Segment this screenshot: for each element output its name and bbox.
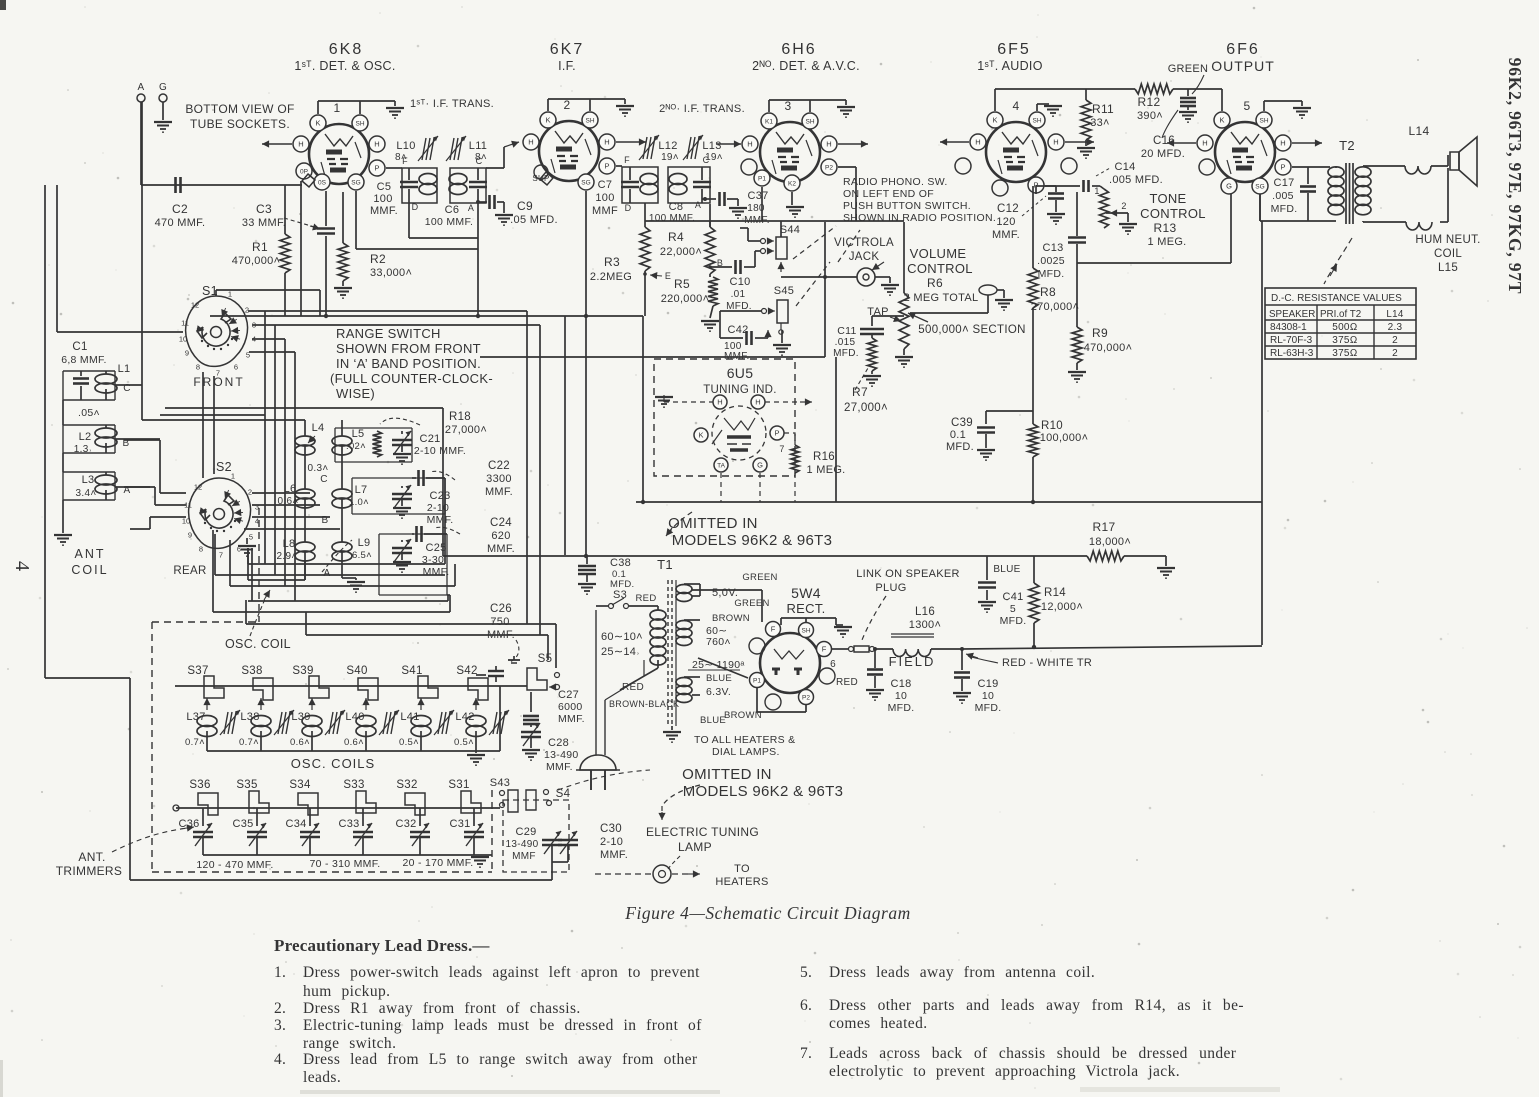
wire arrow up xyxy=(764,330,782,343)
switch S5 xyxy=(527,653,560,691)
capacitor C18 xyxy=(867,647,883,688)
svg-text:SH: SH xyxy=(805,118,814,125)
label volume control xyxy=(904,246,979,304)
svg-text:electrolytic to prevent app: electrolytic to prevent approaching Vict… xyxy=(829,1063,1180,1080)
svg-text:375Ω: 375Ω xyxy=(1332,348,1358,359)
svg-text:8: 8 xyxy=(199,545,203,554)
label 6 xyxy=(830,659,836,670)
wire heater arrows xyxy=(616,138,646,145)
switch S38 xyxy=(241,665,273,700)
label L12 19 xyxy=(658,140,679,163)
svg-text:LAMP: LAMP xyxy=(678,840,712,854)
box L5 xyxy=(335,428,412,462)
dashed arrow to table xyxy=(1324,238,1352,284)
svg-text:2-10 MMF.: 2-10 MMF. xyxy=(414,445,466,457)
wire xyxy=(57,185,183,332)
svg-text:S41: S41 xyxy=(401,665,422,677)
capacitor C37 xyxy=(702,192,738,206)
lead dress item 4 xyxy=(274,1051,698,1068)
label victrola jack xyxy=(834,237,894,263)
pin P xyxy=(1275,159,1291,175)
svg-text:2: 2 xyxy=(564,98,571,112)
svg-text:leads.: leads. xyxy=(303,1069,341,1086)
svg-text:R14: R14 xyxy=(1044,587,1066,599)
coil L12 xyxy=(640,174,658,195)
label R14 xyxy=(1041,587,1083,613)
svg-text:TONE: TONE xyxy=(1149,191,1186,206)
label R8 xyxy=(1031,285,1080,313)
ground xyxy=(786,207,804,217)
svg-text:20 MFD.: 20 MFD. xyxy=(1141,148,1185,160)
svg-text:F: F xyxy=(402,156,408,166)
svg-text:MMF.: MMF. xyxy=(558,713,585,725)
coil L41 xyxy=(399,698,454,751)
wire xyxy=(781,618,836,625)
svg-text:8: 8 xyxy=(196,363,200,372)
pin P2 xyxy=(799,690,814,705)
dashed pointer xyxy=(1162,75,1204,138)
svg-text:H: H xyxy=(1053,138,1058,147)
label 0.3 C xyxy=(308,463,329,485)
ground xyxy=(154,122,172,132)
lug xyxy=(302,174,315,187)
label tone control xyxy=(1140,191,1206,248)
svg-text:C24: C24 xyxy=(490,517,512,529)
svg-text:C42: C42 xyxy=(727,324,748,336)
label FIELD xyxy=(889,654,936,669)
svg-text:2.2MEG: 2.2MEG xyxy=(590,271,632,283)
pin P2 xyxy=(821,159,837,175)
lead dress item 5 xyxy=(800,964,1095,981)
label C10 xyxy=(726,276,752,312)
wire xyxy=(1363,221,1406,222)
svg-text:100: 100 xyxy=(595,192,614,204)
wire xyxy=(142,419,305,421)
coil L37 xyxy=(185,698,240,751)
coil L10 primary xyxy=(419,174,437,195)
wire D-bus xyxy=(409,203,478,238)
wire xyxy=(1440,168,1448,222)
svg-text:.05 MFD.: .05 MFD. xyxy=(510,214,558,226)
label red-white tr xyxy=(966,653,1092,669)
coil L8 xyxy=(277,538,315,562)
svg-text:range switch.: range switch. xyxy=(303,1035,396,1052)
svg-text:L14: L14 xyxy=(1409,124,1430,138)
svg-text:1.3˒: 1.3˒ xyxy=(74,444,92,455)
label GREEN t1b xyxy=(734,598,769,609)
node A xyxy=(468,200,480,213)
svg-text:C34: C34 xyxy=(285,818,306,830)
label 6F5 xyxy=(997,41,1031,58)
coil L1 xyxy=(95,363,131,400)
svg-text:0.6˄: 0.6˄ xyxy=(278,496,299,507)
resistor R12 xyxy=(1135,84,1173,94)
wire P1 tube3 xyxy=(761,187,763,221)
label C24 xyxy=(434,517,515,555)
capacitor C42 xyxy=(720,331,768,345)
label C21 xyxy=(414,433,466,457)
svg-text:ANT.: ANT. xyxy=(78,850,105,864)
pin K xyxy=(540,112,556,128)
lead dress item 6 xyxy=(800,997,1244,1014)
wire xyxy=(548,99,625,111)
svg-text:5.: 5. xyxy=(800,964,812,981)
pin P1 xyxy=(750,673,765,688)
svg-text:MFD.: MFD. xyxy=(946,441,974,453)
ant box L2 xyxy=(63,425,115,453)
svg-text:1 MEG.: 1 MEG. xyxy=(1147,236,1186,248)
svg-text:R17: R17 xyxy=(1093,520,1116,534)
svg-text:RED - WHITE TR: RED - WHITE TR xyxy=(1002,657,1092,669)
capacitor C41 xyxy=(978,556,996,600)
svg-text:7.: 7. xyxy=(800,1045,812,1062)
box L9 C25 xyxy=(379,534,447,595)
label R9 xyxy=(1084,326,1133,354)
wire xyxy=(698,658,748,678)
svg-text:K: K xyxy=(545,116,550,125)
svg-text:C33: C33 xyxy=(338,818,359,830)
svg-text:RED: RED xyxy=(836,677,858,688)
capacitor C19 xyxy=(954,647,970,691)
label C11 xyxy=(833,325,859,359)
svg-text:L41: L41 xyxy=(400,711,419,723)
svg-text:470,000˄: 470,000˄ xyxy=(1084,342,1133,354)
svg-text:MMF.: MMF. xyxy=(427,514,454,526)
label R10 xyxy=(1040,420,1089,444)
svg-text:19˄: 19˄ xyxy=(661,152,679,163)
svg-text:S33: S33 xyxy=(343,779,364,791)
label L13 19 xyxy=(702,140,723,163)
svg-text:L3: L3 xyxy=(82,474,95,486)
svg-text:C21: C21 xyxy=(419,433,440,445)
arrow up S45 xyxy=(779,323,783,334)
svg-text:5: 5 xyxy=(1010,603,1016,615)
pin H xyxy=(1048,134,1064,150)
label R4 xyxy=(660,230,702,258)
label 60-10 25-14 xyxy=(601,631,643,658)
label C18 xyxy=(888,678,915,714)
ground xyxy=(54,535,72,545)
svg-text:MMF.: MMF. xyxy=(485,486,513,498)
switch S45 xyxy=(762,300,789,323)
ground xyxy=(393,508,411,518)
svg-text:RADIO PHONO. SW.: RADIO PHONO. SW. xyxy=(843,176,948,188)
svg-text:27,000˄: 27,000˄ xyxy=(445,424,487,436)
svg-text:1: 1 xyxy=(334,101,341,115)
ground xyxy=(837,107,855,117)
svg-text:620: 620 xyxy=(491,530,510,542)
pin H xyxy=(742,136,758,152)
svg-text:R8: R8 xyxy=(1040,285,1056,299)
lead dress item 7 xyxy=(800,1045,1237,1062)
svg-text:D.-C. RESISTANCE VALUES: D.-C. RESISTANCE VALUES xyxy=(1271,293,1402,304)
svg-text:B: B xyxy=(322,515,329,526)
svg-text:6.3V.: 6.3V. xyxy=(706,686,731,698)
svg-text:SH: SH xyxy=(585,117,594,124)
coil L4 xyxy=(295,422,324,455)
label S45 xyxy=(774,285,794,297)
svg-text:2 MEG TOTAL: 2 MEG TOTAL xyxy=(904,292,979,304)
svg-text:OMITTED IN: OMITTED IN xyxy=(668,515,758,532)
ground xyxy=(393,562,411,572)
label C30 xyxy=(600,823,628,861)
pin H xyxy=(970,134,986,150)
label omitted in models (upper) xyxy=(668,515,832,549)
svg-text:20 - 170 MMF.: 20 - 170 MMF. xyxy=(402,857,473,869)
svg-text:S2: S2 xyxy=(216,460,232,474)
svg-text:LINK ON SPEAKER: LINK ON SPEAKER xyxy=(856,568,960,580)
label C3 xyxy=(242,202,286,229)
label L11 8 xyxy=(469,140,487,163)
wire xyxy=(318,101,395,114)
svg-text:MMF.: MMF. xyxy=(370,205,398,217)
svg-text:6000: 6000 xyxy=(558,701,583,713)
ground xyxy=(342,578,365,592)
label OUTPUT xyxy=(1211,58,1275,74)
svg-text:TA: TA xyxy=(717,462,725,469)
svg-text:MFD.: MFD. xyxy=(1000,615,1027,627)
svg-text:1.: 1. xyxy=(274,964,286,981)
svg-text:BLUE: BLUE xyxy=(993,564,1020,575)
ground xyxy=(655,397,673,407)
svg-text:ON LEFT END OF: ON LEFT END OF xyxy=(843,188,934,200)
svg-text:K: K xyxy=(992,116,997,125)
svg-text:25∼ 1190ᵃ: 25∼ 1190ᵃ xyxy=(692,659,745,671)
svg-text:C26: C26 xyxy=(490,603,512,615)
svg-text:0.6˄: 0.6˄ xyxy=(344,737,364,748)
svg-text:0.7˄: 0.7˄ xyxy=(239,737,259,748)
label C28 xyxy=(544,737,579,773)
tube V2 6K7 xyxy=(539,121,599,181)
svg-text:C: C xyxy=(476,156,483,166)
wire xyxy=(994,89,996,111)
label bottom view of tube sockets xyxy=(185,102,294,131)
svg-text:.005: .005 xyxy=(1272,190,1294,202)
wire xyxy=(1259,194,1261,221)
svg-text:1ˢᵀ· I.F. TRANS.: 1ˢᵀ· I.F. TRANS. xyxy=(410,98,494,110)
trimmer C32 xyxy=(395,808,430,855)
resistor R14 xyxy=(1029,556,1039,646)
svg-text:0.3˄: 0.3˄ xyxy=(308,463,329,474)
svg-text:6F5: 6F5 xyxy=(997,41,1031,58)
dashed box trimmers xyxy=(152,508,492,872)
label C38 xyxy=(610,557,634,590)
lead dress item 3b xyxy=(303,1035,396,1052)
wire xyxy=(1264,101,1302,111)
label D xyxy=(412,202,419,212)
wire xyxy=(791,192,793,205)
label ant trimmers xyxy=(56,850,122,878)
label 1 xyxy=(334,101,341,115)
svg-text:0.7˄: 0.7˄ xyxy=(185,737,205,748)
label BROWN t1 xyxy=(712,613,750,624)
svg-text:S36: S36 xyxy=(189,779,210,791)
wire xyxy=(62,400,64,533)
label F xyxy=(624,155,630,165)
switch S4 xyxy=(526,788,571,810)
svg-text:BOTTOM VIEW OF: BOTTOM VIEW OF xyxy=(185,102,294,116)
wire s1 top xyxy=(216,290,320,316)
svg-text:9: 9 xyxy=(188,531,192,540)
transformer T2 secondary xyxy=(1355,167,1371,215)
svg-text:JACK: JACK xyxy=(849,251,880,263)
svg-text:BLUE: BLUE xyxy=(706,673,732,684)
wire xyxy=(1431,155,1448,166)
label to all heaters xyxy=(694,734,795,758)
wire xyxy=(832,648,848,650)
svg-text:H: H xyxy=(1202,139,1207,148)
dashed switch link lines xyxy=(793,226,860,306)
pin H xyxy=(821,136,837,152)
label R17 xyxy=(1089,520,1131,548)
dashed wire xyxy=(595,870,700,877)
ground xyxy=(386,108,404,118)
svg-text:120: 120 xyxy=(996,216,1015,228)
svg-text:MFD.: MFD. xyxy=(975,702,1002,714)
pin H xyxy=(293,136,309,152)
wire xyxy=(1173,89,1222,111)
label C41 xyxy=(1000,591,1027,627)
svg-text:T2: T2 xyxy=(1339,138,1355,153)
svg-text:S43: S43 xyxy=(490,777,510,789)
svg-text:11: 11 xyxy=(181,319,189,328)
svg-text:SHOWN FROM FRONT: SHOWN FROM FRONT xyxy=(336,341,481,356)
svg-text:MFD.: MFD. xyxy=(1038,268,1065,280)
ground xyxy=(1119,224,1137,234)
capacitor C6 tank xyxy=(469,168,487,203)
svg-text:HUM NEUT.: HUM NEUT. xyxy=(1415,234,1480,246)
capacitor C17 xyxy=(1300,167,1316,221)
svg-text:.01: .01 xyxy=(731,289,746,300)
lead dress item 3 xyxy=(274,1017,702,1034)
label radio phono sw xyxy=(843,176,996,224)
svg-text:FRONT: FRONT xyxy=(193,375,244,389)
wire heater arrows xyxy=(1167,139,1322,146)
ground xyxy=(953,693,971,703)
svg-text:Dress leads away from ante: Dress leads away from antenna coil. xyxy=(829,964,1095,981)
label R5 xyxy=(661,277,710,305)
svg-text:S31: S31 xyxy=(448,779,469,791)
svg-text:6K7: 6K7 xyxy=(550,41,584,58)
wire xyxy=(1124,556,1166,566)
wire xyxy=(835,357,837,502)
svg-text:ELECTRIC TUNING: ELECTRIC TUNING xyxy=(646,825,759,839)
svg-text:L15: L15 xyxy=(1438,262,1458,274)
label C23 xyxy=(427,490,454,526)
label 2nd det avc xyxy=(752,59,860,73)
label C16 xyxy=(1141,135,1185,160)
pin P xyxy=(770,426,784,440)
svg-text:SH: SH xyxy=(1259,117,1268,124)
resistor R2 xyxy=(338,192,348,286)
svg-text:C41: C41 xyxy=(1002,591,1023,603)
pin 0P xyxy=(296,163,312,179)
svg-text:R5: R5 xyxy=(674,277,690,291)
wire SG-bus xyxy=(356,191,478,249)
wire xyxy=(1106,209,1128,222)
svg-text:A: A xyxy=(138,82,145,93)
svg-text:C8: C8 xyxy=(669,201,684,213)
svg-text:TO: TO xyxy=(734,863,750,875)
svg-text:RECT.: RECT. xyxy=(786,601,825,616)
capacitor C1 xyxy=(73,371,89,400)
svg-text:22,000˄: 22,000˄ xyxy=(660,246,702,258)
wire P2 tube3 xyxy=(838,167,856,221)
ground xyxy=(866,690,884,700)
svg-text:PRI.of T2: PRI.of T2 xyxy=(1320,309,1361,320)
lead dress item 7b xyxy=(829,1063,1180,1080)
wire s2 feeders xyxy=(124,440,186,529)
svg-text:4: 4 xyxy=(11,561,33,571)
label 4 xyxy=(1013,99,1020,113)
switch S31 xyxy=(448,779,481,813)
svg-text:S40: S40 xyxy=(346,665,367,677)
svg-text:L14: L14 xyxy=(1386,309,1403,320)
wire xyxy=(709,204,711,227)
label C14 xyxy=(1109,161,1163,186)
svg-text:P1: P1 xyxy=(758,175,766,182)
wire box top xyxy=(645,221,904,237)
pin K xyxy=(310,115,326,131)
svg-text:2.: 2. xyxy=(274,1000,286,1017)
switch S43 xyxy=(500,790,519,812)
svg-text:SPEAKER: SPEAKER xyxy=(1269,309,1315,320)
svg-text:100: 100 xyxy=(373,193,392,205)
svg-text:Figure 4—Schematic Circuit: Figure 4—Schematic Circuit Diagram xyxy=(624,903,910,923)
trimmer C31 xyxy=(449,808,484,855)
svg-text:A: A xyxy=(695,200,701,210)
pin H xyxy=(751,395,765,409)
wire tap to grid xyxy=(910,295,988,313)
svg-text:C31: C31 xyxy=(449,818,470,830)
label electric tuning lamp xyxy=(646,825,759,854)
label C12 xyxy=(992,203,1020,241)
svg-text:C38: C38 xyxy=(610,557,631,569)
svg-text:.005 MFD.: .005 MFD. xyxy=(1109,174,1163,186)
svg-text:R11: R11 xyxy=(1092,102,1114,116)
svg-text:L7: L7 xyxy=(355,484,368,496)
svg-text:P: P xyxy=(604,162,609,171)
wire xyxy=(141,102,163,185)
pin 0S xyxy=(314,174,330,190)
svg-text:P: P xyxy=(374,164,379,173)
wire osc left chain xyxy=(304,420,306,580)
svg-text:C29: C29 xyxy=(515,826,536,838)
wire A down xyxy=(477,203,479,316)
ant box L3 xyxy=(63,472,115,500)
svg-text:C11: C11 xyxy=(837,325,856,337)
svg-text:H: H xyxy=(975,138,980,147)
svg-text:R1: R1 xyxy=(252,240,268,254)
svg-text:L38: L38 xyxy=(240,711,259,723)
wire switch row xyxy=(175,675,527,686)
svg-text:Dress other parts and lead: Dress other parts and leads away from R1… xyxy=(829,997,1244,1014)
svg-text:3300: 3300 xyxy=(486,473,512,485)
label C13 xyxy=(1037,242,1065,280)
ground xyxy=(1293,108,1311,118)
label 120-470 xyxy=(196,859,273,871)
label 6K7 xyxy=(550,41,584,58)
wire row2 xyxy=(173,805,500,811)
wire xyxy=(781,275,890,283)
label 6K8 xyxy=(329,41,363,58)
svg-text:FIELD: FIELD xyxy=(889,654,936,669)
svg-text:C19: C19 xyxy=(977,678,998,690)
svg-text:S4: S4 xyxy=(556,788,571,800)
svg-text:R10: R10 xyxy=(1041,420,1063,432)
svg-text:C27: C27 xyxy=(558,689,579,701)
svg-text:270,000˄: 270,000˄ xyxy=(1031,301,1080,313)
